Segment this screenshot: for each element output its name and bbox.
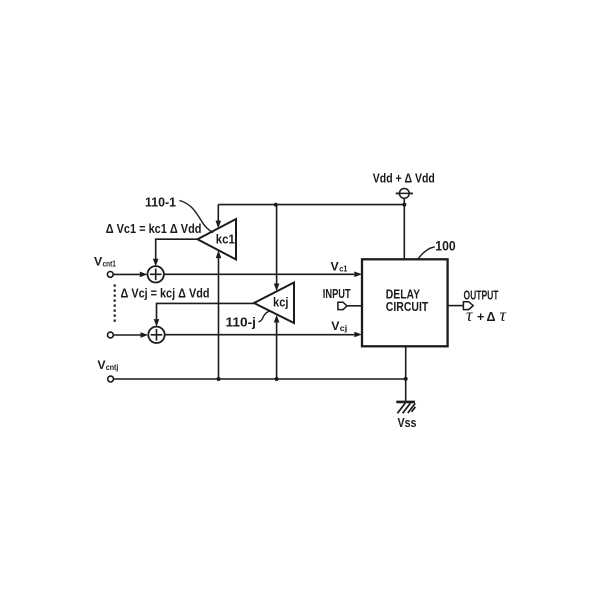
svg-text:Δ Vcj = kcj Δ Vdd: Δ Vcj = kcj Δ Vdd xyxy=(121,286,210,301)
svg-text:CIRCUIT: CIRCUIT xyxy=(386,299,429,314)
svg-text:Δ Vc1 = kc1 Δ Vdd: Δ Vc1 = kc1 Δ Vdd xyxy=(106,221,202,236)
svg-text:Vdd + Δ Vdd: Vdd + Δ Vdd xyxy=(373,171,435,186)
svg-text:kcj: kcj xyxy=(273,294,289,309)
svg-text:+: + xyxy=(477,310,484,324)
svg-text:100: 100 xyxy=(435,239,456,254)
svg-text:τ: τ xyxy=(500,305,507,325)
svg-text:Δ: Δ xyxy=(487,310,496,324)
svg-text:cj: cj xyxy=(340,323,348,333)
svg-text:OUTPUT: OUTPUT xyxy=(464,289,499,303)
svg-text:cntj: cntj xyxy=(106,363,119,372)
svg-text:τ: τ xyxy=(466,305,473,325)
svg-text:V: V xyxy=(331,260,340,274)
svg-text:INPUT: INPUT xyxy=(323,287,351,301)
svg-text:c1: c1 xyxy=(339,263,347,273)
svg-text:Vss: Vss xyxy=(398,415,417,430)
svg-text:110-j: 110-j xyxy=(226,315,257,330)
svg-text:kc1: kc1 xyxy=(216,231,235,246)
svg-text:110-1: 110-1 xyxy=(145,195,176,210)
svg-text:cnt1: cnt1 xyxy=(103,260,117,269)
